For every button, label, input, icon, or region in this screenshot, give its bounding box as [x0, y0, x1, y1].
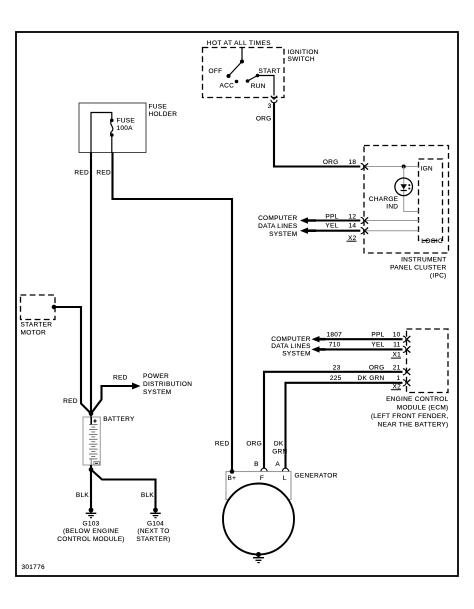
svg-text:ORG: ORG	[246, 441, 262, 448]
wire label ORG horizontal	[323, 159, 339, 166]
junction node	[402, 165, 406, 169]
pin label 21	[393, 364, 401, 371]
wire label RED (battery)	[63, 398, 78, 405]
wire ORG from ignition switch	[274, 103, 360, 167]
wire label 710	[329, 341, 341, 348]
label IGNITION SWITCH	[288, 49, 319, 63]
ground G104	[150, 508, 161, 518]
svg-text:A: A	[275, 461, 280, 468]
connector pin 21 at ECM	[403, 369, 410, 375]
svg-text:14: 14	[349, 223, 357, 230]
svg-text:225: 225	[330, 375, 342, 382]
wire YEL 710 to ECM	[326, 348, 403, 350]
svg-text:F: F	[260, 475, 264, 482]
svg-text:DATA LINES: DATA LINES	[271, 343, 311, 350]
svg-text:FUSE: FUSE	[117, 118, 136, 125]
wire label YEL	[371, 341, 384, 348]
label COMPUTER DATA LINES SYSTEM (ECM)	[271, 336, 311, 358]
internal wire ORG to IGN	[366, 166, 419, 168]
contact OFF	[209, 68, 223, 75]
IPC logic module box	[419, 159, 443, 241]
starter node	[52, 305, 57, 310]
svg-text:MOTOR: MOTOR	[21, 330, 46, 337]
label COMPUTER DATA LINES SYSTEM (IPC)	[258, 215, 298, 238]
wire label RED (generator)	[215, 441, 230, 448]
svg-text:IGN: IGN	[421, 165, 433, 172]
svg-text:12: 12	[349, 213, 357, 220]
node HOT AT ALL TIMES	[207, 40, 271, 47]
svg-text:G103: G103	[82, 520, 99, 527]
svg-text:23: 23	[333, 364, 341, 371]
svg-text:IGNITION: IGNITION	[288, 49, 319, 56]
generator B+ node	[230, 469, 235, 474]
svg-text:INSTRUMENT: INSTRUMENT	[401, 256, 446, 263]
svg-text:18: 18	[349, 159, 357, 166]
svg-text:CONTROL MODULE): CONTROL MODULE)	[57, 536, 125, 543]
wire to power distribution	[91, 386, 134, 414]
wire BLK from battery	[90, 465, 92, 509]
label CHARGE IND	[369, 196, 399, 211]
wire label ORG	[369, 364, 385, 371]
svg-text:RED: RED	[63, 398, 78, 405]
wire PPL 1807 to ECM	[326, 338, 403, 340]
svg-text:YEL: YEL	[325, 223, 338, 230]
engine control module box	[407, 329, 449, 393]
connector pin 10 at ECM	[403, 336, 410, 342]
ground at generator	[253, 552, 264, 563]
connector pin 12 at IPC	[361, 217, 368, 223]
wire label YEL	[325, 223, 338, 230]
svg-text:10: 10	[393, 331, 401, 338]
svg-text:11: 11	[393, 341, 400, 348]
svg-text:1: 1	[397, 375, 401, 382]
label FUSE 100A	[117, 118, 136, 132]
wire starter to battery	[54, 307, 91, 414]
svg-text:GENERATOR: GENERATOR	[295, 472, 338, 479]
battery junction node	[89, 411, 94, 417]
generator housing	[226, 472, 291, 500]
contact RUN	[246, 79, 266, 90]
svg-text:21: 21	[393, 364, 401, 371]
wire label 225	[330, 375, 342, 382]
svg-text:PPL: PPL	[325, 213, 338, 220]
svg-text:GRN: GRN	[272, 448, 287, 455]
wire RED fuse to battery	[90, 153, 92, 414]
svg-text:SYSTEM: SYSTEM	[269, 231, 297, 238]
svg-text:B+: B+	[228, 475, 237, 482]
svg-text:SYSTEM: SYSTEM	[143, 389, 171, 396]
svg-text:(BELOW ENGINE: (BELOW ENGINE	[63, 528, 119, 535]
wire DK GRN 225 to ECM	[286, 383, 403, 469]
wire label PPL	[325, 213, 338, 220]
svg-text:LOGIC: LOGIC	[421, 238, 443, 245]
charge indicator lamp	[395, 178, 413, 196]
svg-text:ORG: ORG	[323, 159, 339, 166]
wire label DK GRN (generator)	[272, 441, 287, 456]
svg-text:(IPC): (IPC)	[430, 272, 447, 279]
svg-text:RED: RED	[215, 441, 230, 448]
pin label 3	[268, 103, 272, 110]
svg-text:B: B	[254, 461, 259, 468]
svg-text:SYSTEM: SYSTEM	[282, 350, 310, 357]
svg-text:X1: X1	[392, 352, 401, 359]
contact START	[256, 68, 281, 77]
svg-text:MODULE (ECM): MODULE (ECM)	[397, 404, 449, 411]
arrow power distribution	[132, 383, 141, 390]
wire BLK to G104	[91, 470, 156, 509]
connector label X2	[347, 235, 357, 242]
svg-text:ENGINE CONTROL: ENGINE CONTROL	[386, 396, 449, 403]
label G103 (BELOW ENGINE CONTROL MODULE)	[57, 520, 125, 543]
svg-text:COMPUTER: COMPUTER	[258, 215, 297, 222]
wire YEL 14	[316, 230, 419, 232]
terminal label A	[275, 461, 280, 468]
wire label RED (left)	[74, 170, 89, 177]
wire label ORG	[256, 115, 272, 122]
wire PPL 12	[316, 219, 419, 221]
ignition switch box	[203, 48, 285, 98]
wire START to pin 3	[258, 76, 275, 96]
label GENERATOR	[295, 472, 338, 479]
svg-text:ACC: ACC	[220, 83, 235, 90]
svg-text:G104: G104	[147, 520, 164, 527]
svg-text:FUSE: FUSE	[149, 104, 168, 111]
svg-text:BLK: BLK	[76, 492, 90, 499]
switch pivot	[240, 60, 244, 64]
label LOGIC	[421, 238, 443, 245]
connector pin 14 at IPC	[361, 228, 368, 234]
starter motor box	[21, 295, 56, 320]
terminal label B+	[228, 475, 237, 482]
svg-text:HOT AT ALL TIMES: HOT AT ALL TIMES	[207, 40, 271, 47]
svg-text:710: 710	[329, 341, 341, 348]
fuse holder box	[79, 103, 146, 153]
wire label RED (power dist)	[113, 374, 128, 381]
connector L at generator	[282, 468, 288, 471]
svg-text:NEAR THE BATTERY): NEAR THE BATTERY)	[378, 421, 449, 428]
label G104 (NEXT TO STARTER)	[136, 520, 170, 543]
generator body	[223, 484, 294, 555]
svg-text:IND: IND	[386, 204, 398, 211]
svg-text:DATA LINES: DATA LINES	[258, 223, 298, 230]
connector label X1	[391, 352, 401, 359]
connector label X2 (ECM)	[391, 383, 401, 390]
svg-text:YEL: YEL	[371, 341, 384, 348]
arrow to computer data lines (710)	[312, 346, 326, 352]
battery	[83, 417, 100, 465]
label POWER DISTRIBUTION SYSTEM	[143, 373, 192, 396]
wire ORG 23 to ECM	[264, 372, 403, 469]
svg-text:DK: DK	[274, 441, 284, 448]
wire label ORG (generator)	[246, 441, 262, 448]
connector pin 3 at ignition switch	[271, 96, 277, 103]
svg-text:BATTERY: BATTERY	[103, 416, 135, 423]
connector pin 11 at ECM	[403, 346, 410, 352]
connector F at generator	[261, 468, 267, 471]
pin label 1	[397, 375, 401, 382]
svg-text:(LEFT FRONT FENDER,: (LEFT FRONT FENDER,	[371, 413, 449, 420]
arrow to computer data lines (PPL)	[300, 217, 316, 223]
switch lever	[227, 62, 243, 79]
svg-text:1807: 1807	[327, 331, 343, 338]
label BATTERY	[103, 416, 135, 423]
terminal label B	[254, 461, 259, 468]
instrument panel cluster box	[364, 146, 449, 254]
svg-text:PPL: PPL	[371, 331, 384, 338]
pin label 12	[349, 213, 357, 220]
terminal label L	[283, 475, 287, 482]
diagram number 301776	[22, 564, 45, 571]
wire label PPL	[371, 331, 384, 338]
fuse F1 100A	[110, 119, 114, 153]
wire label 23	[333, 364, 341, 371]
label ENGINE CONTROL MODULE (ECM)	[371, 396, 449, 428]
arrow to computer data lines (1807)	[312, 336, 326, 342]
svg-text:HOLDER: HOLDER	[149, 111, 178, 118]
internal wire to charge indicator	[404, 167, 419, 212]
svg-text:OFF: OFF	[209, 68, 223, 75]
svg-text:RED: RED	[113, 374, 128, 381]
wire RED fuse to generator	[113, 153, 233, 472]
terminal label F	[260, 475, 264, 482]
svg-text:PANEL CLUSTER: PANEL CLUSTER	[390, 264, 446, 271]
contact ACC	[220, 80, 239, 90]
wire feed into switch	[241, 48, 243, 62]
svg-text:ORG: ORG	[369, 364, 385, 371]
svg-text:301776: 301776	[22, 564, 45, 571]
svg-text:DK GRN: DK GRN	[358, 375, 385, 382]
svg-text:3: 3	[268, 103, 272, 110]
svg-text:POWER: POWER	[143, 373, 169, 380]
svg-text:(NEXT TO: (NEXT TO	[137, 528, 169, 535]
svg-text:100A: 100A	[117, 125, 134, 132]
svg-text:RUN: RUN	[251, 83, 266, 90]
svg-text:RED: RED	[74, 170, 89, 177]
pin label 11	[393, 341, 400, 348]
arrow to computer data lines (YEL)	[300, 228, 316, 234]
svg-text:ORG: ORG	[256, 115, 272, 122]
connector pin 1 at ECM	[403, 380, 410, 386]
svg-text:RED: RED	[96, 170, 111, 177]
svg-text:DISTRIBUTION: DISTRIBUTION	[143, 381, 192, 388]
pin label 14	[349, 223, 357, 230]
pin label 18	[349, 159, 357, 166]
label INSTRUMENT PANEL CLUSTER (IPC)	[390, 256, 446, 279]
svg-text:START: START	[259, 68, 281, 75]
svg-text:COMPUTER: COMPUTER	[271, 336, 310, 343]
svg-text:BLK: BLK	[141, 492, 155, 499]
svg-text:SWITCH: SWITCH	[288, 56, 315, 63]
connector pin 18 at IPC	[361, 163, 368, 169]
wire label DK GRN	[358, 375, 385, 382]
wire label 1807	[327, 331, 343, 338]
label FUSE HOLDER	[149, 104, 178, 118]
internal fuse feed wire	[91, 113, 112, 153]
battery ground junction	[89, 467, 94, 472]
svg-text:L: L	[283, 475, 287, 482]
wire label BLK (right)	[141, 492, 155, 499]
svg-text:STARTER): STARTER)	[136, 536, 170, 543]
label IGN	[421, 165, 433, 172]
wire label RED (right)	[96, 170, 111, 177]
wire RUN to START	[248, 76, 258, 82]
label STARTER MOTOR	[21, 322, 53, 337]
pin label 10	[393, 331, 401, 338]
ground G103	[86, 508, 97, 518]
wire label BLK (left)	[76, 492, 90, 499]
svg-text:STARTER: STARTER	[21, 322, 53, 329]
svg-text:CHARGE: CHARGE	[369, 196, 399, 203]
